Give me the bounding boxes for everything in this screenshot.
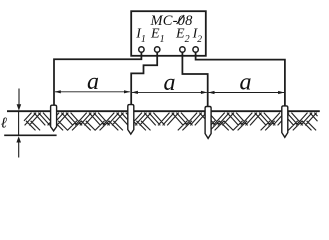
svg-text:a: a: [87, 69, 99, 95]
wire I1 to electrode 1: [54, 51, 141, 107]
electrode 1: [51, 105, 57, 131]
depth dimension vertical line: [18, 112, 20, 135]
terminal circle I1: [139, 47, 144, 52]
ground hatch band: [24, 113, 318, 131]
terminal circle E1: [155, 47, 160, 52]
dimension line a (span 3): [208, 91, 284, 94]
electrode depth reference line: [4, 134, 56, 136]
ground surface line: [7, 110, 320, 112]
dimension line a (span 2): [132, 91, 208, 94]
electrode 2: [128, 105, 134, 135]
instrument box MC-08: [131, 11, 206, 56]
depth dimension top arrow: [18, 89, 20, 105]
terminal circle I2: [193, 47, 198, 52]
dimension line a (span 1): [55, 90, 131, 93]
wire E2 to electrode 3: [182, 51, 207, 107]
svg-text:a: a: [240, 70, 252, 96]
wire E1 to electrode 2 (double step): [131, 51, 157, 106]
electrode 4: [282, 106, 288, 137]
wire I2 to electrode 4: [196, 51, 285, 107]
depth dimension bottom arrow: [16, 136, 21, 142]
svg-text:a: a: [164, 70, 176, 96]
terminal circle E2: [180, 47, 185, 52]
electrode 3: [205, 107, 211, 139]
svg-text:ℓ: ℓ: [1, 116, 7, 132]
